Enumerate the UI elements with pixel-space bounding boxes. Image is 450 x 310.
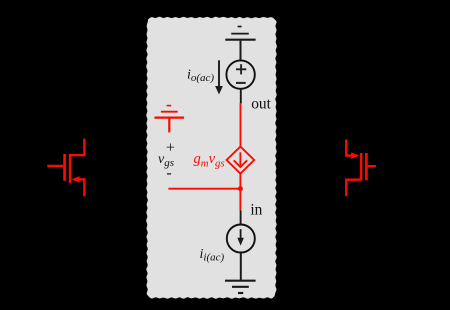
wire diamond to node (239, 173, 241, 189)
transistor Q2 (right NMOS) (346, 140, 376, 197)
current arrow io (215, 60, 223, 94)
wire to bottom ground (240, 252, 242, 280)
svg-text:-: - (166, 165, 171, 182)
wire top ground to source (240, 41, 242, 61)
wire source to out (240, 89, 242, 104)
ground (bottom) (225, 281, 256, 293)
wire out node (red) (240, 103, 242, 147)
voltage source V1 (226, 60, 254, 88)
wire horizontal to node (168, 188, 240, 190)
svg-text:out: out (251, 95, 271, 112)
node junction (238, 186, 243, 191)
wire in (black) (240, 210, 242, 224)
vgs source symbol (red battery) (154, 106, 184, 133)
current source ii (227, 225, 255, 253)
ground (top supply) (225, 27, 255, 40)
panel background (146, 17, 277, 299)
transistor Q1 (left NMOS) (47, 139, 84, 197)
svg-text:in: in (250, 201, 262, 218)
wire node down (red) (239, 189, 241, 211)
svg-text:+: + (166, 139, 175, 156)
dependent source gm*vgs diamond (227, 147, 255, 174)
